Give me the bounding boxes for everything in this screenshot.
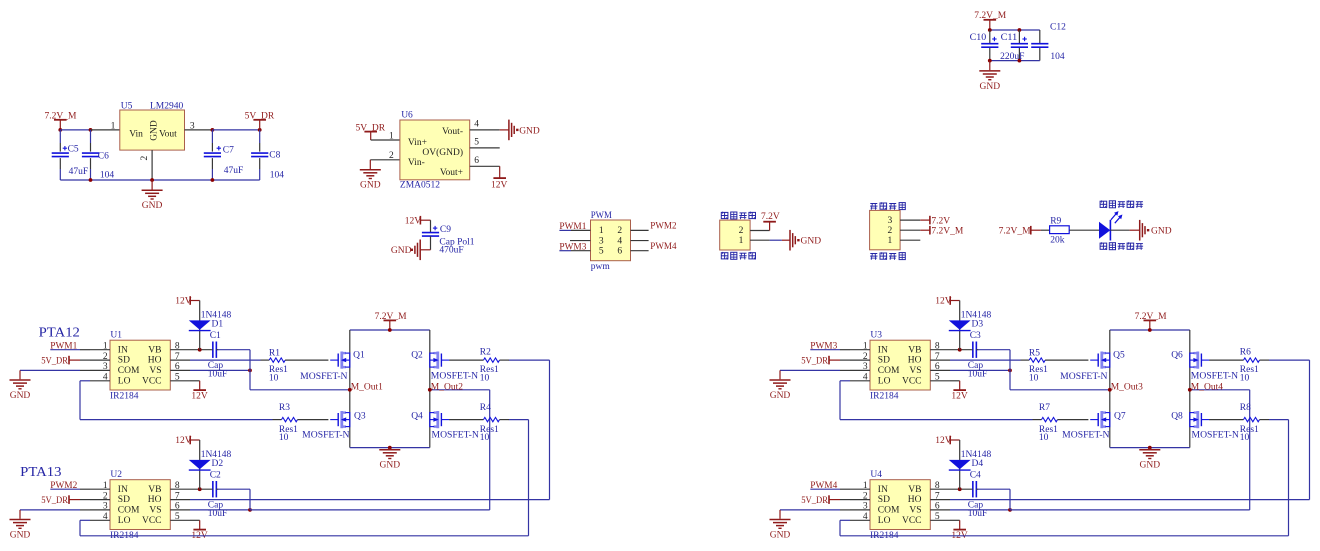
svg-text:PWM4: PWM4 (650, 242, 676, 252)
svg-text:PTA12: PTA12 (39, 325, 80, 340)
svg-text:U1: U1 (110, 331, 122, 341)
wire U5 input rail (60, 129, 90, 131)
svg-text:1: 1 (599, 226, 604, 236)
pin 3 Vout (185, 129, 213, 131)
svg-text:R7: R7 (1039, 403, 1050, 413)
svg-text:PWM4: PWM4 (810, 481, 837, 491)
wire (430, 236, 432, 250)
svg-text:1: 1 (888, 236, 893, 246)
svg-text:Vout-: Vout- (442, 127, 463, 137)
wire bottom rail cap bank (990, 60, 1040, 62)
power port 7.2V (switch pin3) (900, 219, 920, 221)
LED power indicator (1099, 222, 1110, 239)
svg-text:D1: D1 (212, 320, 224, 330)
capacitor C6 (90, 130, 92, 143)
module U6 ZMA0512 (400, 120, 470, 180)
power port 7.2V_M (switch pin2) (900, 229, 920, 231)
svg-text:C10: C10 (970, 33, 987, 43)
svg-text:C6: C6 (98, 152, 109, 162)
right pins PWM header (631, 229, 649, 231)
svg-text:PWM3: PWM3 (810, 342, 837, 352)
ground cap bank (989, 61, 991, 71)
capacitor C7 (211, 130, 213, 143)
svg-text:2: 2 (140, 156, 150, 161)
svg-text:1: 1 (111, 121, 116, 131)
capacitor C11 (1018, 30, 1020, 43)
wire (1069, 229, 1099, 231)
svg-text:R6: R6 (1240, 348, 1251, 358)
svg-text:R5: R5 (1029, 348, 1040, 358)
svg-text:C5: C5 (68, 144, 79, 154)
pin 1 Vin+ (371, 139, 400, 141)
svg-text:20k: 20k (1050, 236, 1065, 246)
svg-text:5: 5 (599, 246, 604, 256)
svg-text:Q7: Q7 (1114, 411, 1126, 421)
label power indicator top (1100, 200, 1107, 208)
svg-text:2: 2 (739, 226, 744, 236)
svg-text:47uF: 47uF (224, 166, 244, 176)
junction cap bank bottom (988, 59, 992, 63)
svg-text:OV(GND): OV(GND) (422, 147, 463, 158)
wire U5 output rail (212, 129, 259, 131)
svg-text:4: 4 (617, 236, 622, 246)
pin 2 Vin- (370, 159, 400, 161)
label power indicator bottom (1100, 242, 1107, 250)
svg-text:M_Out4: M_Out4 (1191, 382, 1223, 392)
svg-text:C1: C1 (210, 331, 221, 341)
svg-text:D2: D2 (212, 459, 224, 469)
svg-text:12V: 12V (491, 181, 508, 191)
svg-text:Q5: Q5 (1113, 351, 1125, 361)
svg-text:C8: C8 (269, 151, 280, 161)
junction (258, 128, 262, 132)
svg-text:PWM2: PWM2 (650, 222, 676, 232)
svg-text:5: 5 (474, 138, 479, 148)
ground U6 (369, 160, 371, 169)
ground bar LED (1140, 220, 1150, 241)
svg-text:2: 2 (888, 226, 893, 236)
svg-text:U5: U5 (121, 101, 133, 111)
power port 12V (U6 output) (499, 166, 501, 178)
svg-text:D3: D3 (972, 320, 984, 330)
svg-text:Vout: Vout (159, 130, 177, 140)
svg-text:PTA13: PTA13 (20, 465, 61, 480)
ground bar C9 (411, 240, 421, 261)
svg-text:C12: C12 (1050, 23, 1066, 33)
junction (58, 128, 62, 132)
wire (1110, 229, 1129, 231)
svg-text:C3: C3 (970, 331, 981, 341)
svg-text:1: 1 (389, 131, 394, 141)
svg-text:U2: U2 (110, 470, 122, 480)
capacitor C5 (59, 130, 61, 143)
pin 1 wire (900, 239, 920, 241)
svg-text:Q1: Q1 (353, 351, 365, 361)
right driver module (770, 296, 1310, 541)
svg-text:12V: 12V (405, 217, 422, 227)
svg-text:R8: R8 (1240, 403, 1251, 413)
capacitor C8 (259, 130, 261, 143)
svg-text:7.2V_M: 7.2V_M (999, 227, 1031, 237)
svg-text:C4: C4 (970, 471, 981, 481)
junction (211, 128, 215, 132)
wire (1041, 229, 1050, 231)
svg-text:470uF: 470uF (439, 246, 463, 256)
svg-text:U4: U4 (870, 470, 882, 480)
svg-text:M_Out3: M_Out3 (1111, 382, 1143, 392)
junction (89, 178, 93, 182)
ground U5 (151, 180, 153, 190)
regulator U5 LM2940 (120, 110, 185, 150)
resistor R9 20k (1050, 226, 1070, 234)
pin 4 Vout- (470, 129, 500, 131)
connector drive switch (870, 204, 877, 210)
svg-text:M_Out1: M_Out1 (351, 382, 383, 392)
svg-text:ZMA0512: ZMA0512 (400, 181, 440, 191)
svg-text:C7: C7 (223, 146, 234, 156)
svg-text:pwm: pwm (591, 262, 611, 272)
svg-text:6: 6 (474, 156, 479, 166)
svg-text:C11: C11 (1001, 33, 1018, 43)
ground bar U6 pin4 (500, 129, 509, 131)
svg-text:Q8: Q8 (1171, 411, 1183, 421)
svg-text:Vin-: Vin- (408, 158, 425, 168)
junction cap bank top (988, 28, 992, 32)
pin 2 GND (151, 150, 153, 180)
svg-text:GND: GND (519, 126, 540, 136)
wire top rail cap bank (990, 29, 1040, 31)
svg-text:GND: GND (391, 246, 412, 256)
svg-text:GND: GND (801, 237, 822, 247)
svg-text:GND: GND (1151, 227, 1172, 237)
svg-text:104: 104 (100, 170, 115, 180)
svg-text:Q3: Q3 (354, 411, 366, 421)
wire (430, 220, 432, 232)
svg-text:R1: R1 (269, 348, 280, 358)
svg-text:3: 3 (888, 216, 893, 226)
pin 3 wire (570, 240, 591, 242)
svg-text:104: 104 (1050, 52, 1065, 62)
pin 1 Vin (91, 129, 120, 131)
svg-text:D4: D4 (972, 459, 984, 469)
pin 6 Vout+ (470, 165, 500, 167)
svg-text:47uF: 47uF (69, 167, 89, 177)
svg-text:U6: U6 (401, 111, 413, 121)
junction (89, 128, 93, 132)
svg-text:GND: GND (149, 120, 159, 141)
power port 7.2V (terminal pin2) (750, 230, 770, 232)
svg-text:LM2940: LM2940 (150, 101, 184, 111)
svg-text:PWM1: PWM1 (50, 342, 77, 352)
svg-text:M_Out2: M_Out2 (431, 382, 463, 392)
svg-text:3: 3 (599, 236, 604, 246)
svg-text:2: 2 (389, 151, 394, 161)
connector power terminal (721, 212, 728, 220)
capacitor C9 Cap Pol1 470uF (422, 233, 439, 237)
svg-text:U3: U3 (870, 331, 882, 341)
svg-text:Vin+: Vin+ (408, 138, 427, 148)
pin 5 (470, 147, 500, 149)
capacitor C10 (989, 30, 991, 43)
svg-text:3: 3 (190, 121, 195, 131)
svg-text:Q4: Q4 (411, 411, 423, 421)
svg-text:C2: C2 (210, 471, 221, 481)
svg-text:4: 4 (474, 120, 479, 130)
svg-text:1: 1 (739, 236, 744, 246)
wire U5 ground rail (60, 179, 259, 181)
svg-text:R9: R9 (1050, 217, 1061, 227)
svg-text:Vout+: Vout+ (440, 168, 463, 178)
svg-text:7.2V: 7.2V (761, 212, 780, 222)
svg-text:2: 2 (617, 226, 622, 236)
svg-text:7.2V_M: 7.2V_M (931, 227, 963, 237)
left driver module (10, 296, 550, 541)
svg-text:PWM: PWM (591, 211, 613, 221)
svg-text:R4: R4 (480, 403, 491, 413)
svg-text:Q2: Q2 (411, 351, 423, 361)
svg-text:PWM2: PWM2 (50, 481, 77, 491)
svg-text:Q6: Q6 (1171, 351, 1183, 361)
svg-text:7.2V: 7.2V (931, 216, 950, 226)
capacitor C12 (1039, 30, 1041, 43)
svg-text:R2: R2 (480, 348, 491, 358)
ground bar (terminal pin1) (750, 239, 770, 241)
svg-text:R3: R3 (279, 403, 290, 413)
svg-text:6: 6 (617, 246, 622, 256)
svg-text:C9: C9 (440, 225, 451, 235)
svg-text:104: 104 (270, 171, 285, 181)
svg-text:Vin: Vin (129, 130, 143, 140)
